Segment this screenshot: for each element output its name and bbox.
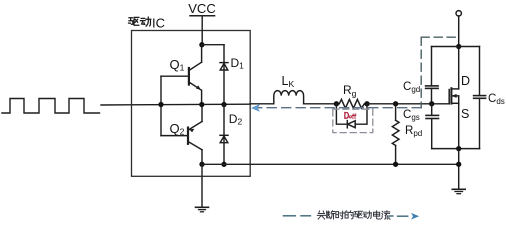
svg-text:Cgd: Cgd: [403, 81, 420, 94]
node gate/Cgd junction: [429, 101, 434, 106]
node Rpd top: [393, 101, 398, 106]
drain terminal circle: [456, 11, 461, 16]
wire Q2 collector down to ground: [201, 164, 203, 207]
label 驱动IC: [129, 17, 151, 26]
wire VCC node to D1 top: [202, 44, 224, 46]
svg-text:D1: D1: [231, 56, 245, 71]
transistor Q1 (NPN): [161, 45, 202, 105]
bottom annotation dashes (right): [389, 215, 407, 217]
svg-text:VCC: VCC: [188, 1, 215, 16]
wire ground rail: [202, 163, 459, 165]
wire: input line into driver IC: [101, 103, 250, 106]
svg-text:D2: D2: [229, 112, 243, 127]
node source/rail junction: [456, 162, 461, 167]
wire drain terminal down: [458, 16, 460, 47]
node VCC inside box: [199, 42, 204, 47]
diode D1: [220, 45, 228, 105]
svg-text:D: D: [461, 74, 470, 88]
node Rg right: [364, 101, 369, 106]
svg-text:Cds: Cds: [488, 93, 505, 106]
dashed current path (mosfet box top): [421, 36, 458, 38]
node source bottom: [456, 146, 461, 151]
driver IC box: [132, 31, 251, 177]
resistor Rpd: [392, 104, 399, 165]
transistor mosfet: [449, 47, 459, 149]
ground under driver IC: [196, 207, 209, 212]
VCC bar terminal: [190, 15, 215, 17]
node Q2 collector / rail left: [199, 162, 204, 167]
transistor Q2 (PNP): [161, 105, 202, 165]
svg-text:Rpd: Rpd: [405, 125, 422, 138]
svg-text:LK: LK: [282, 74, 295, 89]
node Rpd bottom: [393, 162, 398, 167]
node D1 bottom: [221, 102, 226, 107]
svg-text:IC: IC: [152, 15, 165, 30]
node input/base junction: [158, 102, 163, 107]
capacitor Cgs: [426, 104, 439, 149]
diode D2: [220, 105, 228, 165]
ground at source: [452, 189, 465, 193]
node Q1/Q2 output junction: [199, 102, 204, 107]
wire Rg to gate: [367, 103, 449, 105]
wire mosfet model top: [432, 46, 480, 48]
dashed box around Doff: [333, 109, 373, 132]
input square wave: [2, 99, 100, 114]
capacitor Cgd: [426, 47, 439, 104]
wire source to rail: [458, 149, 460, 189]
bottom annotation text 关断时的驱动电流: [317, 211, 390, 219]
wire main line to inductor: [250, 103, 274, 105]
inductor LK: [274, 91, 304, 104]
dashed current path (left vertical): [420, 37, 422, 108]
svg-text:Rg: Rg: [343, 83, 357, 99]
node Rg left: [334, 101, 339, 106]
wire mosfet model bottom: [432, 148, 480, 150]
svg-text:Q1: Q1: [170, 57, 185, 73]
dashed current path (horizontal back to driver): [259, 107, 422, 109]
bottom annotation arrowhead (points right): [411, 213, 419, 220]
wire inductor to Rg: [304, 103, 340, 105]
node D2 bottom: [221, 162, 226, 167]
bottom annotation dashes (left): [284, 215, 311, 217]
resistor Rg: [336, 99, 367, 108]
svg-text:Cgs: Cgs: [403, 109, 420, 122]
capacitor Cds: [474, 47, 486, 149]
svg-text:S: S: [461, 107, 469, 121]
arrowhead of current path (points left): [252, 105, 259, 111]
label Doff: [345, 113, 356, 119]
diode Doff parallel branch: [336, 104, 367, 128]
node drain top: [456, 44, 461, 49]
wire base vertical: [160, 76, 162, 135]
wire VCC down: [201, 16, 203, 45]
svg-text:Q2: Q2: [170, 121, 185, 137]
